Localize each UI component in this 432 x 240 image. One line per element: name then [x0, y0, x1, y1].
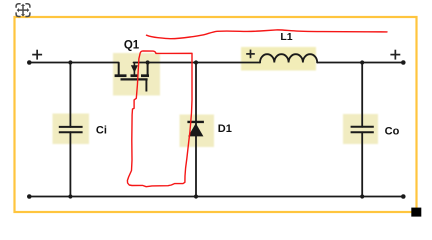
Co top plate: [351, 126, 374, 128]
red annotation: loop around Q1/D1: [127, 51, 192, 187]
plus sign left: [32, 50, 42, 60]
Q1 drain contact bar: [115, 74, 127, 77]
highlight box Co: [343, 114, 378, 144]
Q1 source contact bar: [141, 74, 149, 77]
Q1 bulk contact bar: [131, 74, 139, 77]
svg-text:L1: L1: [280, 31, 292, 43]
resize handle bottom-right: [411, 208, 421, 217]
capacitor Ci plates: [59, 127, 83, 132]
node: bottom rail left end: [27, 194, 32, 199]
diode D1: [187, 122, 204, 136]
Co bottom plate: [351, 131, 374, 133]
highlight box D1: [180, 115, 215, 148]
junction: Ci / bottom rail: [68, 194, 72, 198]
plus sign right: [390, 50, 400, 60]
Q1 gate plate: [121, 78, 148, 80]
junction: D1 / top rail: [194, 60, 198, 64]
junction: Ci / top rail: [68, 60, 72, 64]
highlight box L1: [241, 47, 316, 71]
wire: Ci branch lower: [69, 132, 71, 196]
transistor Q1 (MOSFET): [115, 63, 149, 92]
junction: D1 / bottom rail: [194, 194, 198, 198]
junction: Q1 source / top rail: [146, 60, 150, 64]
Ci top plate: [59, 126, 83, 128]
svg-text:Ci: Ci: [96, 124, 107, 136]
move handle icon top-left: [16, 4, 30, 17]
svg-text:Co: Co: [385, 125, 400, 137]
plus sign L1: [246, 50, 255, 59]
wire: top rail left segment: [29, 62, 118, 64]
wire: top rail right segment: [317, 62, 403, 64]
wire: top rail middle segment: [134, 62, 261, 64]
D1 triangle: [188, 123, 203, 136]
Ci bottom plate: [59, 131, 83, 133]
D1 cathode bar: [187, 121, 204, 123]
selection border (orange): [15, 17, 417, 212]
Q1 gate lead: [145, 79, 147, 91]
Q1 drain lead: [118, 63, 120, 76]
red annotation: wavy top line: [147, 30, 388, 39]
highlight box Q1: [113, 53, 160, 96]
wire: Co branch lower: [361, 132, 363, 196]
svg-text:D1: D1: [218, 123, 232, 135]
Q1 source lead: [147, 63, 149, 76]
node: top rail left end: [27, 60, 32, 65]
Q1 bulk lead: [133, 63, 135, 76]
Q1 bulk arrow: [131, 65, 138, 73]
junction: Co / top rail: [360, 60, 364, 64]
node: bottom rail right end: [401, 194, 406, 199]
wire: bottom rail: [29, 196, 403, 198]
highlight box Ci: [53, 114, 90, 145]
wire: D1 branch: [195, 63, 197, 197]
junction: Co / bottom rail: [360, 194, 364, 198]
svg-text:Q1: Q1: [124, 40, 140, 52]
node: top rail right end: [401, 60, 406, 65]
capacitor Co plates: [351, 127, 374, 133]
wire: Ci branch upper: [69, 63, 71, 128]
wire: Co branch upper: [361, 63, 363, 127]
inductor L1 coil: [260, 54, 317, 62]
